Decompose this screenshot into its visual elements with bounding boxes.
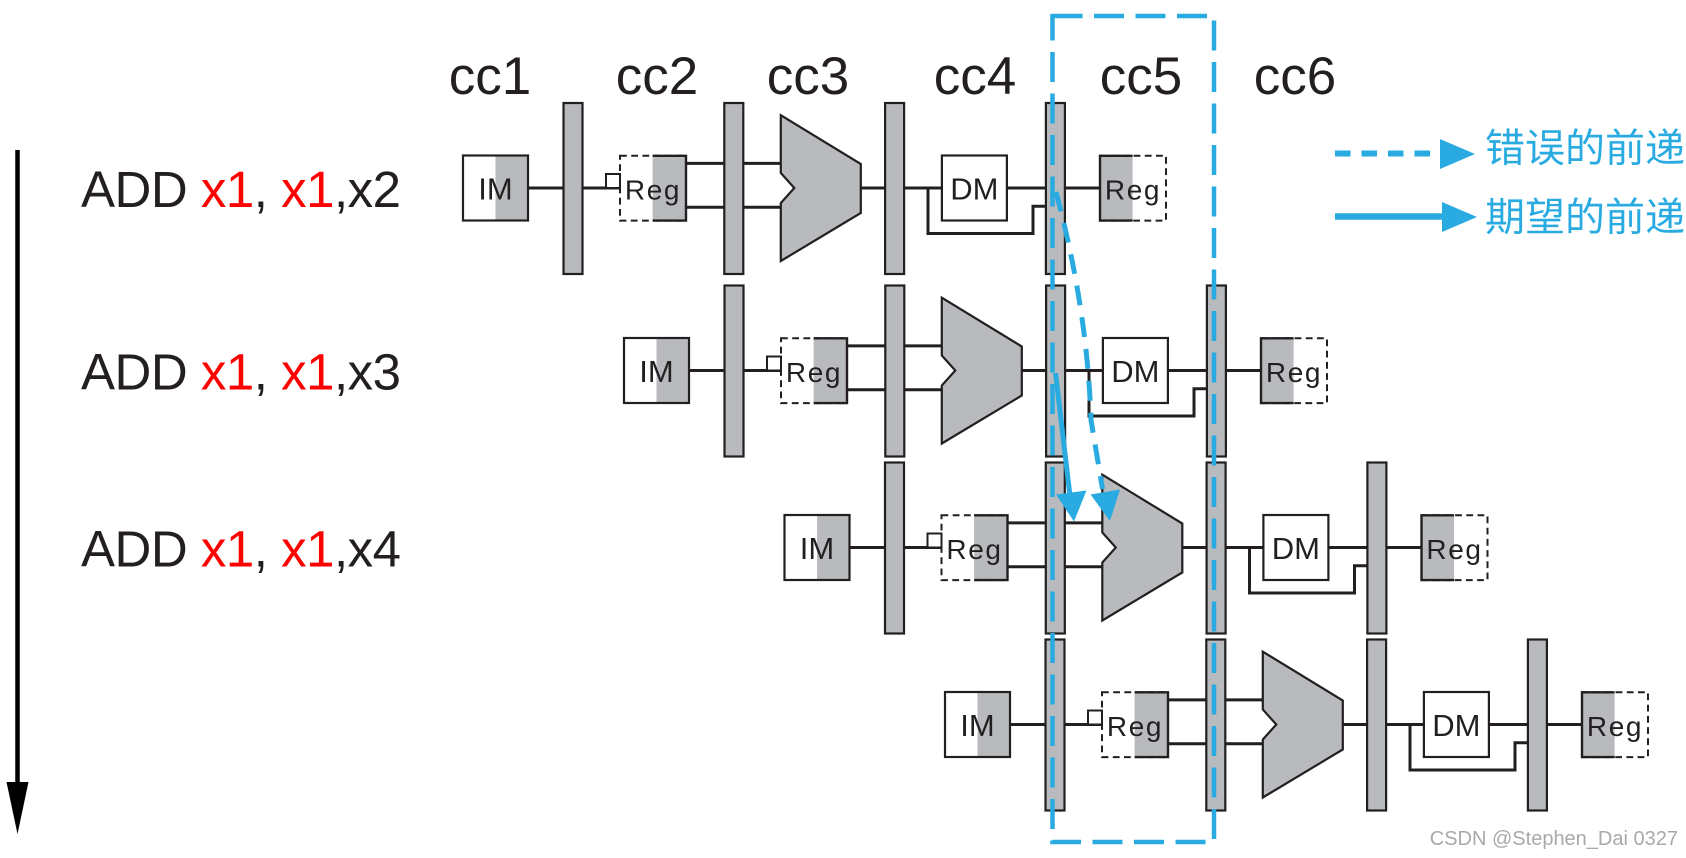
svg-text:cc6: cc6 xyxy=(1254,47,1336,106)
svg-text:ADD x1, x1,x4: ADD x1, x1,x4 xyxy=(81,521,401,578)
svg-text:cc4: cc4 xyxy=(934,47,1016,106)
svg-text:cc3: cc3 xyxy=(767,47,849,106)
svg-text:cc2: cc2 xyxy=(616,47,698,106)
svg-text:ADD x1, x1,x3: ADD x1, x1,x3 xyxy=(81,344,401,401)
svg-text:cc1: cc1 xyxy=(449,47,531,106)
svg-text:ADD x1, x1,x2: ADD x1, x1,x2 xyxy=(81,161,401,218)
svg-text:cc5: cc5 xyxy=(1100,47,1182,106)
svg-text:CSDN @Stephen_Dai 0327: CSDN @Stephen_Dai 0327 xyxy=(1430,828,1678,850)
